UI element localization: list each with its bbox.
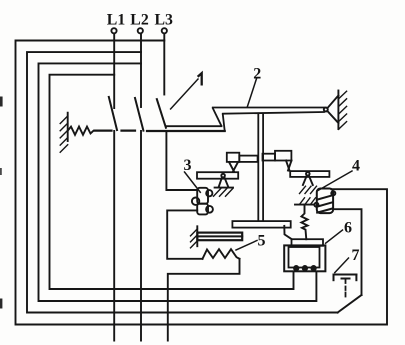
lever pivot circle: [324, 108, 328, 112]
scan speck left edge A: [0, 97, 3, 107]
trip rod vertical (free release rod): [257, 114, 259, 222]
terminal L1: [111, 28, 116, 33]
svg-text:5: 5: [258, 233, 266, 250]
contact bar dash 1: [95, 130, 112, 132]
svg-text:4: 4: [352, 158, 360, 175]
spring anchor line: [295, 204, 314, 206]
bimetal anchor vertical: [196, 226, 198, 246]
lever 2 step diagonal lower: [223, 114, 225, 130]
lever 2 step diagonal upper: [213, 108, 222, 126]
right wall hatching: [338, 91, 346, 129]
leader 2: [247, 79, 256, 107]
wire diagonal to button branch: [338, 295, 362, 313]
shunt armature bar: [290, 171, 329, 177]
main contact blade 2: [135, 98, 143, 131]
wire L3 supply vertical: [163, 34, 165, 95]
main contact blade 1: [109, 97, 117, 130]
shunt pivot hatching: [300, 186, 317, 193]
wire overcurrent coil to heater: [167, 210, 202, 258]
contact bar dash 2: [122, 130, 136, 132]
lever 2 arm top line: [213, 107, 324, 109]
latch hook right: [286, 161, 290, 171]
UV armature spring: [301, 205, 307, 240]
latch plate right: [263, 154, 276, 161]
undervoltage release 6 inner box: [289, 247, 320, 268]
svg-text:L1: L1: [107, 12, 126, 29]
overcurrent armature pivot circle: [221, 174, 225, 178]
lever pivot triangle: [327, 96, 338, 109]
lever 2 arm bottom line: [223, 112, 324, 114]
latch plate left: [227, 153, 240, 162]
contact pull spring: [68, 127, 94, 135]
overcurrent pivot hatching: [214, 188, 234, 196]
wire L1 supply vertical: [113, 34, 115, 109]
main contact blade 3: [157, 99, 166, 128]
label 1: [199, 73, 202, 84]
heater element 5 zigzag: [203, 249, 240, 259]
wire button branch vertical: [333, 209, 361, 295]
UV armature link from crossbar: [284, 226, 292, 239]
UV coil bumps: [294, 266, 298, 270]
svg-text:L2: L2: [130, 12, 149, 29]
wire L2 load vertical: [140, 131, 142, 341]
shunt release coil 4: [314, 189, 335, 214]
scan speck left edge B: [0, 299, 2, 309]
wire loop4 L1 tap to UV coil left: [50, 75, 294, 289]
wire loop2 L2 tap to button circuit: [27, 52, 338, 312]
leader 5: [236, 241, 257, 251]
overcurrent armature bar: [197, 172, 238, 179]
button 7 dashed stem: [345, 287, 347, 291]
right wall anchor: [337, 91, 339, 130]
UV armature plate: [292, 239, 324, 246]
leader 4: [318, 171, 352, 191]
shunt armature pivot triangle: [303, 176, 307, 186]
leader 1: [171, 79, 198, 109]
leader 7: [335, 258, 349, 273]
terminal L3: [162, 28, 167, 33]
svg-text:2: 2: [253, 66, 261, 83]
spring anchor hatching: [300, 198, 316, 205]
wire loop3 L2 tap to UV coil right: [39, 63, 317, 301]
bimetal strip 5: [197, 233, 242, 241]
terminal L2: [138, 28, 143, 33]
left wall hatching: [60, 116, 67, 152]
contact bar dash 3 long: [147, 130, 225, 132]
leader 6: [326, 230, 343, 243]
left wall anchor: [67, 113, 69, 141]
overcurrent armature pivot triangle: [219, 177, 222, 187]
overcurrent pivot base line: [215, 187, 233, 189]
wire L1 load vertical: [113, 131, 115, 341]
wire heater to L3 output: [168, 259, 240, 341]
shunt armature pivot circle: [306, 172, 310, 176]
button 7 moving contact: [342, 278, 350, 280]
wire L3 blade to overcurrent coil: [166, 131, 197, 190]
svg-text:7: 7: [352, 247, 360, 264]
latch hook left: [229, 162, 234, 172]
lever 2 step top line: [166, 125, 221, 127]
crossbar of trip rod: [232, 221, 290, 228]
wire loop1 L3 tap to shunt coil top: [16, 41, 388, 325]
leader 3: [185, 172, 201, 192]
scan speck left edge C: [0, 168, 2, 175]
wire L2 supply vertical: [140, 34, 142, 108]
svg-text:6: 6: [344, 220, 352, 237]
bimetal anchor hatching: [191, 229, 198, 248]
svg-text:L3: L3: [154, 12, 173, 29]
undervoltage release 6 outer box: [284, 245, 325, 271]
overcurrent release coil 3: [192, 188, 213, 215]
button 7 bar: [334, 274, 357, 276]
